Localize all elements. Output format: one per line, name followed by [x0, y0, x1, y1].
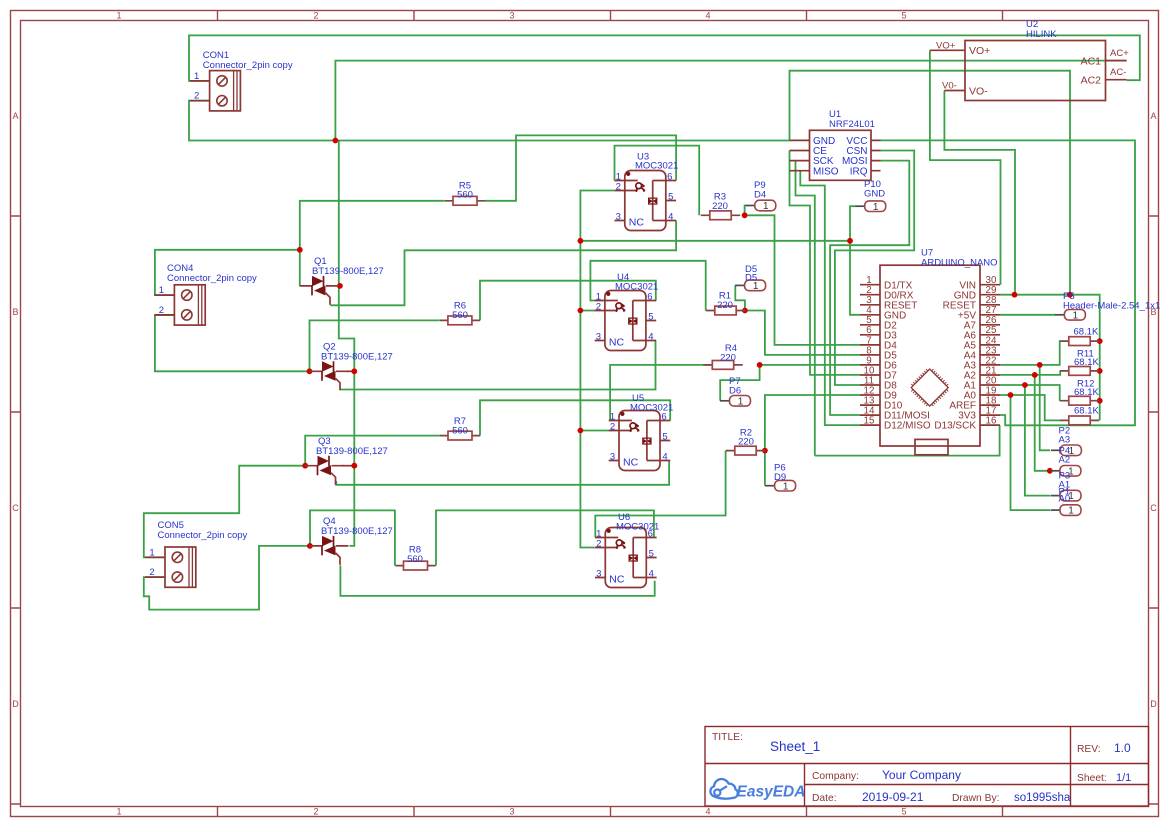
svg-text:68.1K: 68.1K — [1074, 357, 1099, 368]
svg-text:1: 1 — [116, 11, 121, 21]
wire R1 right to D5 header — [735, 285, 745, 310]
header P7 D6 — [720, 376, 751, 407]
wire P9 branch — [744, 206, 747, 216]
wire R4 left to U5 pin1 — [610, 365, 711, 421]
svg-text:AC-: AC- — [1110, 67, 1126, 78]
svg-text:A0: A0 — [1059, 494, 1071, 505]
resistor R4 220 — [703, 343, 742, 370]
wire R6 right to U4 pin6 — [480, 281, 656, 321]
left ruler ticks — [11, 216, 21, 804]
resistor R5 560 — [445, 181, 485, 206]
svg-text:D: D — [12, 699, 19, 709]
header P1 A0 — [1051, 487, 1082, 517]
wire R1 right / D5 net to Arduino D5 (pin8) — [745, 311, 860, 355]
wire P10 branch — [850, 206, 855, 241]
svg-text:68.1K: 68.1K — [1074, 387, 1099, 398]
wire R8 right to U6 pin6 — [436, 510, 654, 565]
wire R7 right to U5 pin6 — [480, 400, 670, 435]
svg-text:Company:: Company: — [812, 771, 859, 782]
svg-text:D9: D9 — [774, 472, 786, 483]
opto U4 MOC3021 — [595, 272, 659, 351]
wire GND rail branch U5 pin2 — [580, 430, 609, 432]
svg-text:A: A — [12, 111, 18, 121]
svg-text:VO-: VO- — [969, 86, 988, 98]
node R2/P6 junction — [762, 448, 768, 454]
connector CON4 — [154, 263, 257, 325]
module U1 NRF24L01 — [790, 109, 881, 180]
svg-text:AC+: AC+ — [1110, 48, 1129, 59]
wire R4 right / D6 net to Arduino D6 (pin9) — [760, 364, 860, 366]
node R11 right junction — [1097, 368, 1103, 374]
resistor R1 220 — [706, 291, 745, 315]
node Q1 MT2 junction — [337, 283, 343, 289]
svg-text:NRF24L01: NRF24L01 — [829, 119, 875, 130]
svg-text:3: 3 — [509, 11, 514, 21]
wire Q3 MT2 lead extension — [342, 465, 354, 467]
node Q2 MT2 junction — [351, 368, 357, 374]
resistor 68.1K (R10?) top — [1060, 327, 1099, 346]
svg-text:AC1: AC1 — [1081, 56, 1102, 68]
node P10 GND junction — [847, 238, 853, 244]
resistor R2 220 — [726, 428, 765, 456]
top ruler ticks — [218, 11, 1003, 21]
wire A2 branch down to header P4 — [1035, 375, 1050, 471]
svg-text:IRQ: IRQ — [850, 166, 868, 177]
node A3 branch junction — [1037, 362, 1043, 368]
svg-text:Drawn By:: Drawn By: — [952, 793, 1000, 804]
node R12 right junction — [1097, 398, 1103, 404]
svg-text:220: 220 — [720, 352, 736, 363]
node CON1.2/AC1 junction — [333, 138, 339, 144]
wire R8 left to Q4 MT1 junction — [310, 510, 395, 565]
svg-text:MOC3021: MOC3021 — [616, 522, 659, 533]
svg-text:D5: D5 — [745, 273, 757, 284]
wire R5 left to Q1 MT1 — [300, 201, 445, 286]
wire Arduino A0 pin19 to resistor 68.1K (bottom) — [1000, 395, 1060, 420]
wire U1 MISO to Arduino D12 (pin15) — [800, 171, 860, 425]
wire Arduino D13/SCK (pin16) under-board run — [815, 425, 1000, 456]
wire U3 pin4 to Q1 gate — [330, 221, 676, 306]
svg-text:B: B — [12, 307, 18, 317]
wire U4 pin4 to Q2 gate — [340, 341, 655, 390]
wire R3 right / P9 net to Arduino D4 (pin7) — [743, 215, 860, 345]
wire U1 GND up-over to Arduino GND pin29 — [790, 71, 1071, 295]
svg-text:D13/SCK: D13/SCK — [934, 421, 976, 432]
node P4 header junction — [1047, 468, 1053, 474]
triac Q3 BT139-800E,127 — [305, 436, 388, 485]
wire node AC1 riser from junction — [335, 61, 1126, 141]
svg-text:Header-Male-2.54_1x1: Header-Male-2.54_1x1 — [1063, 301, 1160, 312]
wire R2 right / D9 net to Arduino D9 (pin12) — [765, 395, 860, 451]
svg-text:1.0: 1.0 — [1114, 741, 1131, 755]
svg-text:BT139-800E,127: BT139-800E,127 — [312, 266, 384, 277]
wire Q3 gate to U5 pin4 — [336, 461, 669, 485]
wire CON5 pin1 up to Q3 MT1 — [144, 466, 305, 558]
svg-text:D4: D4 — [754, 190, 766, 201]
svg-text:4: 4 — [705, 807, 710, 817]
wire A3 branch down to header P2 — [1040, 365, 1050, 450]
opto U3 MOC3021 — [615, 152, 679, 231]
svg-text:560: 560 — [452, 310, 468, 321]
node Q4 MT1 junction — [307, 543, 313, 549]
header P6 D9 — [765, 463, 796, 493]
svg-text:220: 220 — [712, 201, 728, 212]
svg-text:2019-09-21: 2019-09-21 — [862, 790, 924, 804]
wire U2 VO- down to Arduino GND wire — [944, 91, 1015, 295]
svg-text:A: A — [1150, 111, 1156, 121]
svg-text:2: 2 — [313, 807, 318, 817]
svg-text:D: D — [1150, 699, 1157, 709]
wire Arduino A1 pin20 to R12 — [1000, 385, 1060, 401]
header P10 GND — [855, 179, 886, 213]
module U2 HILINK — [930, 19, 1127, 101]
svg-text:REV:: REV: — [1077, 744, 1101, 755]
svg-text:Sheet:: Sheet: — [1077, 773, 1107, 784]
resistor R8 560 — [395, 545, 435, 570]
wire GND vertical rail to opto cathodes — [580, 241, 594, 548]
wire CON4 pin2 to Q2 MT1 — [155, 315, 310, 371]
node P5 header junction — [1067, 292, 1073, 298]
svg-text:Connector_2pin copy: Connector_2pin copy — [167, 273, 257, 284]
svg-text:C: C — [1150, 503, 1157, 513]
svg-text:1/1: 1/1 — [1116, 772, 1131, 784]
svg-text:ARDUINO_NANO: ARDUINO_NANO — [921, 258, 998, 269]
wire GND horizontal to Arduino GND pin4 — [580, 241, 860, 315]
svg-text:MOC3021: MOC3021 — [630, 403, 673, 414]
resistor R11 68.1K — [1060, 349, 1100, 376]
header D5 D5 — [735, 264, 766, 292]
wire U4 pin1 to R1 left — [590, 261, 705, 311]
wire A0 branch down to header P1 — [1011, 395, 1051, 510]
resistor R6 560 — [440, 301, 480, 325]
wire GND rail branch U4 pin2 — [580, 310, 595, 312]
svg-text:AC2: AC2 — [1081, 75, 1102, 87]
svg-text:5: 5 — [901, 807, 906, 817]
wire R5 right to U3 pin6 — [485, 135, 676, 200]
svg-text:BT139-800E,127: BT139-800E,127 — [316, 446, 388, 457]
svg-text:MOC3021: MOC3021 — [615, 282, 658, 293]
node R1/D5 junction — [742, 308, 748, 314]
node A2 branch junction — [1032, 372, 1038, 378]
EasyEDA logo — [710, 779, 805, 800]
wire U3 pin1 to R3 left — [615, 146, 700, 216]
svg-text:A3: A3 — [1059, 435, 1071, 446]
svg-text:D12/MISO: D12/MISO — [884, 421, 931, 432]
svg-text:560: 560 — [407, 554, 423, 565]
wire U3 pin2 to GND rail — [580, 191, 614, 241]
svg-text:HILINK: HILINK — [1026, 29, 1057, 40]
svg-text:TITLE:: TITLE: — [712, 732, 743, 743]
title block — [705, 727, 1149, 807]
header P5 Header-Male-2.54_1x1 — [1055, 291, 1160, 321]
header P4 A2 — [1050, 446, 1081, 478]
wire A1 branch down to header P3 — [1025, 385, 1050, 496]
node GND rail top junction — [578, 238, 584, 244]
wire R6 left to Q2 MT1 junction — [310, 320, 440, 371]
node R5/CON4.1 junction — [297, 247, 303, 253]
wire U1 CSN to Arduino D8 (pin11) — [835, 151, 914, 386]
wire U2 VO+ down to Arduino VIN (pin30) — [930, 50, 1001, 284]
svg-text:Connector_2pin copy: Connector_2pin copy — [203, 60, 293, 71]
triac Q4 BT139-800E,127 — [310, 516, 393, 565]
svg-text:15: 15 — [864, 416, 875, 427]
svg-text:V0-: V0- — [942, 81, 957, 92]
wire U5 pin1 riser handled above; U6 pin1 to R2 left — [595, 451, 725, 538]
opto U6 MOC3021 — [595, 512, 659, 588]
svg-text:C: C — [12, 503, 19, 513]
resistor R3 220 — [701, 192, 740, 220]
node A1 branch junction — [1022, 382, 1028, 388]
wire R4 right down to P7 header — [720, 365, 759, 401]
svg-text:Sheet_1: Sheet_1 — [770, 739, 820, 754]
node Q3 MT1 junction — [302, 463, 308, 469]
svg-text:VO+: VO+ — [936, 41, 956, 52]
wire CON1 pin2 to U1 GND (y=140.5 run) — [189, 101, 790, 141]
wire Arduino +5V pin27 to P5 header — [1000, 314, 1055, 316]
svg-text:3: 3 — [509, 807, 514, 817]
wire Arduino A2 pin21 to R11 — [1000, 371, 1060, 375]
node A0 branch junction — [1008, 392, 1014, 398]
svg-text:220: 220 — [738, 437, 754, 448]
svg-text:68.1K: 68.1K — [1074, 406, 1099, 417]
wire Arduino A3 pin22 to resistor 68.1K (top) — [1000, 341, 1061, 365]
wire U1 CE to Arduino D7 (pin10) — [790, 151, 861, 375]
wire triac phase rail down from CON1 junction — [339, 141, 355, 546]
wire R2 right down to P6 header — [764, 451, 766, 486]
connector CON5 — [145, 520, 248, 587]
resistor R12 68.1K — [1060, 379, 1100, 406]
node U4 pin2 GND junction — [578, 308, 584, 314]
svg-text:EasyEDA: EasyEDA — [737, 784, 806, 801]
connector CON1 — [190, 50, 293, 111]
wire R7 left to Q3 MT1 junction — [305, 436, 440, 466]
node U5 pin2 GND junction — [578, 428, 584, 434]
svg-text:BT139-800E,127: BT139-800E,127 — [321, 526, 393, 537]
svg-text:4: 4 — [705, 11, 710, 21]
module U7 ARDUINO_NANO — [860, 248, 1000, 455]
svg-text:5: 5 — [901, 11, 906, 21]
header P9 D4 — [745, 180, 776, 212]
svg-text:Date:: Date: — [812, 793, 837, 804]
wire CON4 pin1 up to R5 rail junction — [155, 250, 300, 295]
right ruler ticks — [1149, 216, 1159, 804]
triac Q1 BT139-800E,127 — [300, 256, 384, 305]
triac Q2 BT139-800E,127 — [310, 342, 393, 391]
svg-text:VO+: VO+ — [969, 45, 990, 57]
svg-text:220: 220 — [717, 300, 733, 311]
svg-text:Your Company: Your Company — [882, 768, 961, 782]
node Q3 MT2 junction — [351, 463, 357, 469]
svg-text:A2: A2 — [1059, 455, 1071, 466]
svg-text:MOC3021: MOC3021 — [635, 161, 678, 172]
svg-text:1: 1 — [116, 807, 121, 817]
svg-text:560: 560 — [457, 190, 473, 201]
node VO-/GND junction — [1012, 292, 1018, 298]
opto U5 MOC3021 — [609, 393, 674, 471]
svg-text:68.1K: 68.1K — [1074, 327, 1099, 338]
wire Arduino GND pin29 to 68.1K pulldown rail — [1000, 295, 1100, 421]
bottom ruler ticks — [218, 807, 1003, 817]
node R4/P7 junction — [757, 362, 763, 368]
svg-text:MISO: MISO — [813, 166, 839, 177]
svg-text:16: 16 — [986, 416, 997, 427]
svg-text:GND: GND — [864, 189, 885, 200]
node U1GND/GND junction — [1067, 292, 1073, 298]
wire CON1 pin1 to AC- (top long run) — [189, 35, 1140, 81]
svg-text:560: 560 — [452, 426, 468, 437]
wire U1 SCK down to D13 net — [796, 161, 815, 456]
svg-text:Connector_2pin copy: Connector_2pin copy — [158, 530, 248, 541]
header P3 A1 — [1051, 471, 1082, 503]
node R3/P9 junction — [742, 212, 748, 218]
svg-text:2: 2 — [313, 11, 318, 21]
wire Q2 MT2 lead extension — [346, 370, 354, 372]
wire CON5 pin2 to Q4 MT1 — [144, 546, 310, 610]
header P2 A3 — [1051, 426, 1082, 457]
svg-text:BT139-800E,127: BT139-800E,127 — [321, 352, 393, 363]
wire U1 MOSI to Arduino D11 (pin14) — [830, 161, 909, 415]
svg-text:D6: D6 — [729, 386, 741, 397]
node 68.1K top right junction — [1097, 338, 1103, 344]
resistor R7 560 — [440, 416, 480, 440]
wire Q4 gate to U6 pin4 — [340, 565, 654, 596]
svg-text:so1995sha: so1995sha — [1014, 792, 1071, 804]
wire U1 VCC to Arduino 3V3 (pin17) — [881, 140, 1136, 425]
resistor 68.1K (R13?) bottom — [1060, 406, 1100, 425]
node Q2 MT1 junction — [307, 368, 313, 374]
